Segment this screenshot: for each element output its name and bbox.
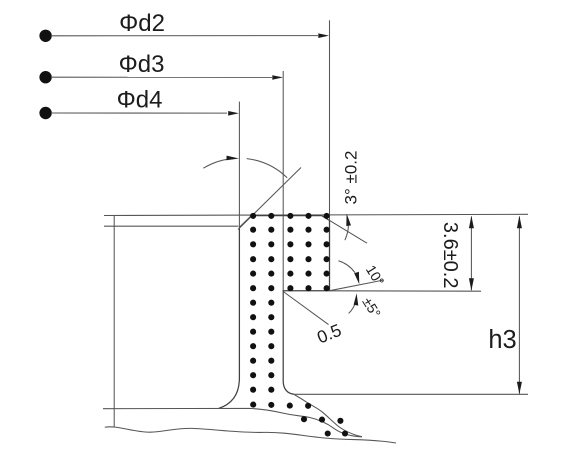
flange break curve [294, 395, 362, 437]
angle arc 10deg [338, 261, 355, 273]
leader line d4 [51, 112, 227, 114]
leader dot d2 [39, 30, 51, 42]
dimension arrow 3.6 bottom [469, 278, 474, 290]
svg-text:Φd2: Φd2 [119, 10, 165, 37]
extension line d4 [238, 102, 240, 228]
leader line d2 [51, 35, 318, 37]
leader line d3 [51, 76, 272, 78]
svg-text:3° ±0.2: 3° ±0.2 [341, 151, 360, 205]
taper line 10deg [329, 280, 383, 291]
arrowhead d3 [272, 75, 283, 80]
rotation arc left [203, 158, 235, 168]
dimension line 3.6 [470, 217, 472, 291]
extension line d3 [282, 71, 284, 291]
arrowhead d2 [318, 33, 329, 38]
svg-text:Φd3: Φd3 [119, 51, 165, 78]
leader dot d3 [39, 71, 51, 83]
chamfer leader 0.5 [283, 292, 328, 325]
angle arc 3deg [345, 225, 348, 241]
arrowhead d4 [228, 111, 239, 116]
angle arrowhead 3deg [346, 214, 351, 226]
dimension arrow h3 top [517, 216, 522, 228]
dimension arrow 3.6 top [469, 216, 474, 228]
wavy break line [105, 427, 396, 443]
top surface line [104, 214, 528, 215]
leader dot d4 [39, 107, 51, 119]
extension line d2 [329, 20, 331, 291]
svg-text:Φd4: Φd4 [117, 87, 163, 114]
angle arrowhead pm5deg [354, 293, 359, 305]
angle arc pm5deg [349, 300, 357, 314]
dimension arrow h3 bottom [517, 382, 522, 394]
dimension line h3 [518, 217, 520, 394]
rotation arc right [247, 159, 288, 178]
step surface line right [330, 290, 482, 292]
left wall line [113, 216, 115, 428]
left inner surface line [104, 225, 238, 227]
svg-text:3.6±0.2: 3.6±0.2 [439, 222, 461, 289]
angle arrowhead 10deg [354, 272, 359, 284]
svg-text:h3: h3 [488, 326, 516, 354]
base surface line left with break curve [103, 408, 362, 436]
section outline [219, 216, 330, 409]
bottom surface line right [294, 393, 528, 395]
rotation arrowhead [226, 156, 239, 161]
stipple dots [250, 213, 348, 437]
chamfer extension line upper-right [322, 216, 368, 244]
chamfer extension line upper-left [238, 168, 301, 230]
